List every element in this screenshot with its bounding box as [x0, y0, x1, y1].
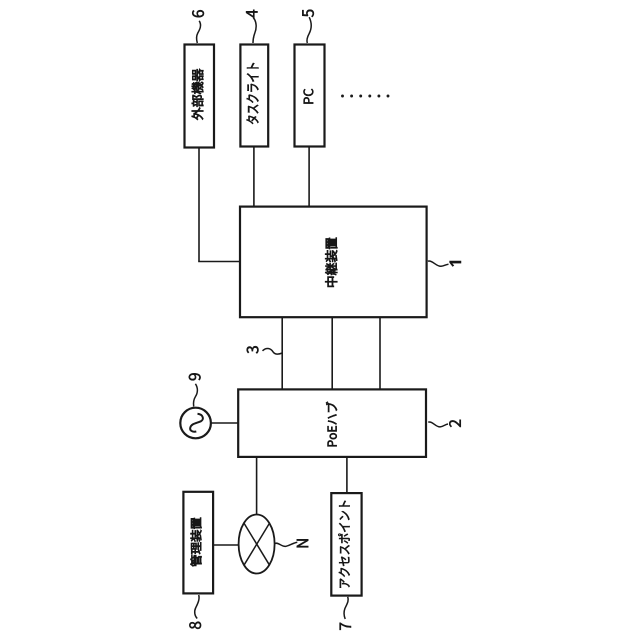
leader squiggle 6 — [197, 21, 201, 43]
label 2 — [449, 420, 461, 427]
box: task light タスクライト (4) — [240, 45, 268, 147]
leader squiggle 1 — [428, 261, 449, 266]
text PC — [303, 89, 313, 104]
leader squiggle 4 — [253, 18, 256, 44]
leader squiggle N — [275, 542, 297, 546]
wire: relay-PoE right — [379, 317, 381, 389]
box: relay device 中継装置 (1) — [240, 207, 427, 318]
wire: relay-PoE middle — [331, 317, 333, 389]
wire: AC to PoE — [211, 422, 238, 424]
label N — [297, 539, 308, 547]
leader squiggle 7 — [344, 597, 348, 619]
box: PoE hub PoEハブ (2) — [238, 389, 426, 457]
wire: management to lamp — [213, 544, 239, 546]
box: PC (5) — [295, 45, 325, 147]
box: access point アクセスポイント (7) — [331, 493, 361, 595]
leader squiggle 2 — [428, 422, 448, 427]
wire: PoE to access point — [346, 457, 348, 493]
AC tilde symbol — [190, 414, 203, 432]
label 1 — [450, 261, 461, 266]
label 6 — [192, 10, 204, 17]
box: management device 管理装置 (8) — [183, 492, 213, 594]
leader squiggle 9 — [193, 384, 197, 407]
ellipsis dots — [341, 95, 344, 98]
label 8 — [189, 622, 201, 629]
wire: task light to relay — [253, 147, 255, 207]
wire: ext device to relay (L-shape) — [198, 148, 200, 262]
AC source circle (9) — [180, 408, 211, 439]
label 5 — [302, 10, 314, 17]
leader squiggle 3 — [263, 348, 283, 354]
leader squiggle 8 — [195, 595, 199, 619]
label 3 — [247, 346, 259, 353]
label 9 — [189, 373, 201, 380]
label 7 — [340, 623, 351, 630]
wire: PC to relay — [308, 147, 310, 207]
box: external device 外部機器 (6) — [185, 45, 215, 148]
wire: PoE to lamp — [256, 457, 258, 515]
leader squiggle 5 — [307, 17, 311, 43]
wire: relay-PoE left — [281, 317, 283, 389]
label 4 — [246, 10, 257, 18]
lamp ellipse with X (N) — [239, 515, 275, 574]
